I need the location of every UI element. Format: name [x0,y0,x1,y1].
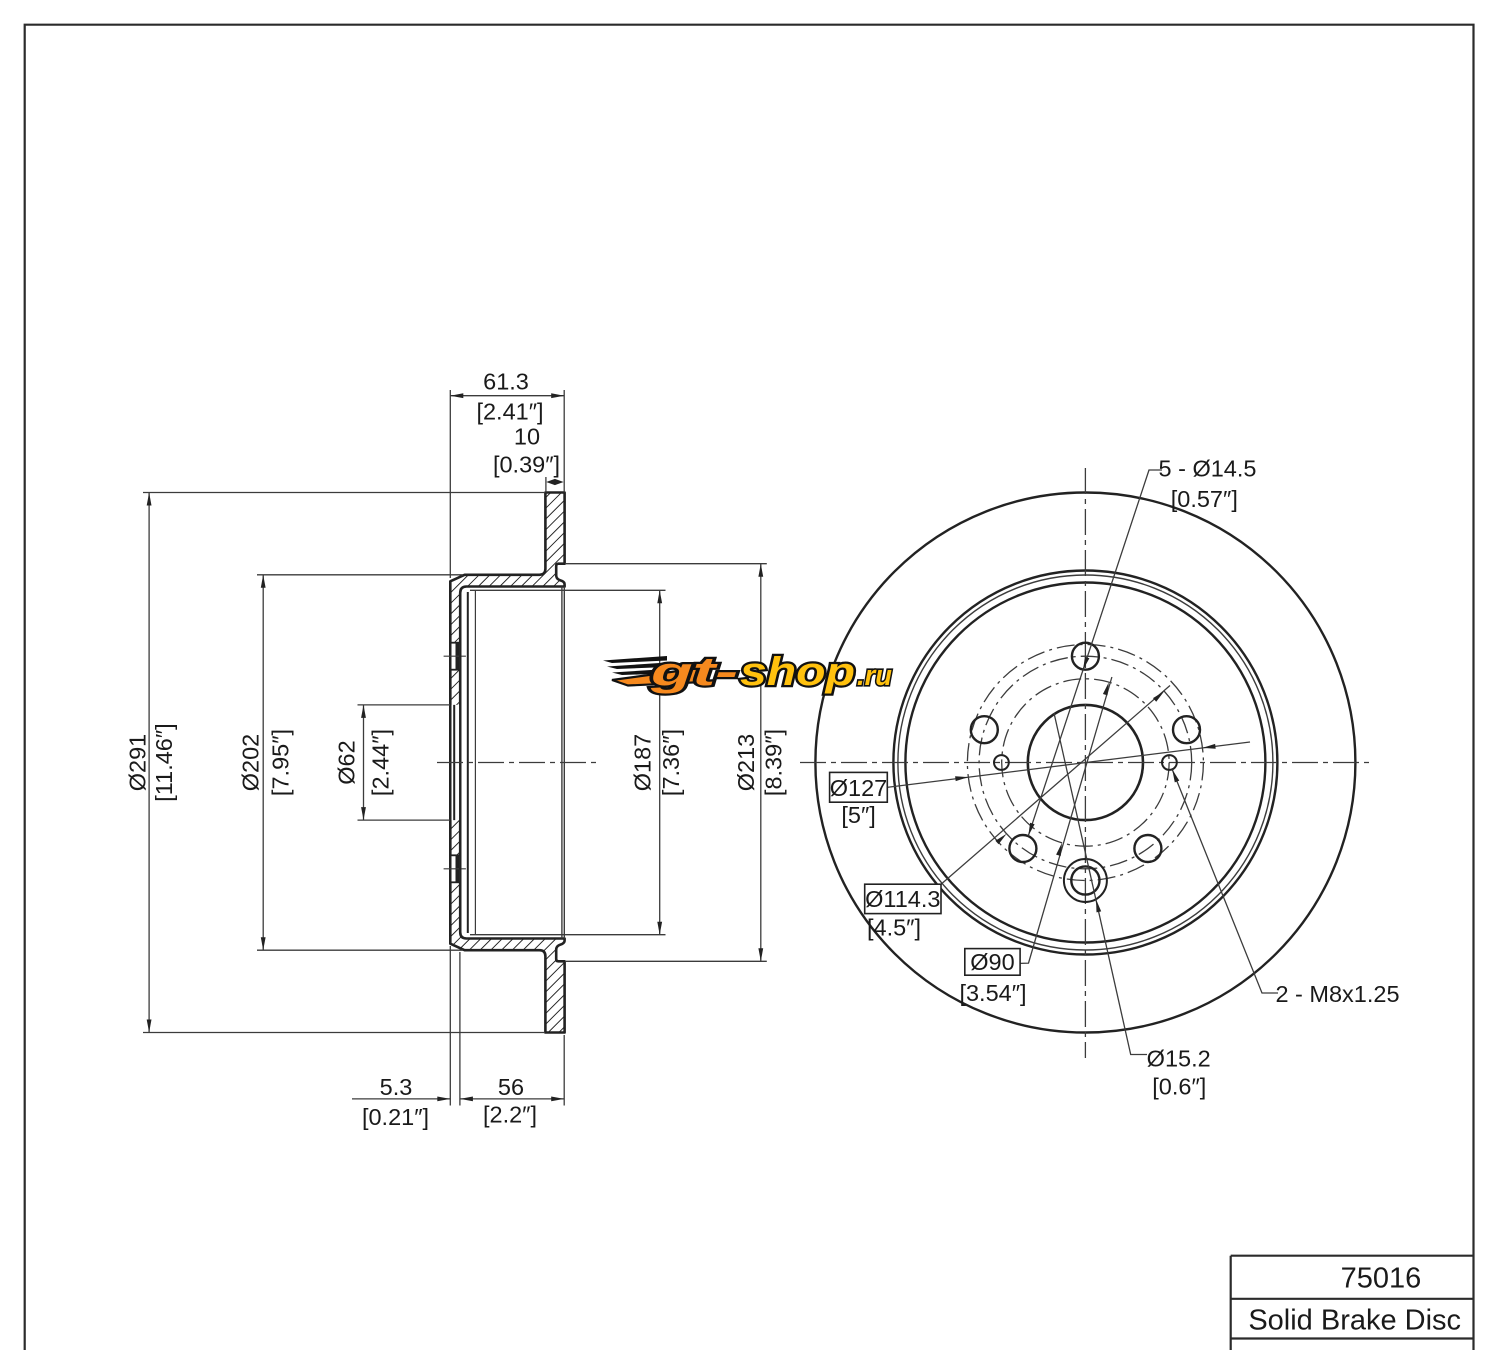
svg-text:56: 56 [498,1074,524,1100]
svg-text:[8.39″]: [8.39″] [760,729,786,796]
svg-text:[5″]: [5″] [841,802,875,828]
extension lines left view [143,492,545,494]
svg-text:Ø90: Ø90 [970,949,1014,975]
svg-text:Ø187: Ø187 [630,734,656,792]
svg-text:[2.2″]: [2.2″] [483,1102,537,1128]
dimension dia 202 [262,575,264,950]
boxed label dia114.3 [865,884,941,913]
bolt circle dia114.3 (dash-dot) [979,656,1192,869]
leader dia114.3 [939,686,1170,887]
dimension 56 bottom [460,1098,564,1100]
svg-text:2 - M8x1.25: 2 - M8x1.25 [1275,981,1399,1007]
dimension dia 291 [148,493,150,1033]
boxed label dia90 [965,949,1020,976]
svg-text:Ø62: Ø62 [334,740,360,784]
svg-text:[11.46″]: [11.46″] [151,723,177,801]
front view outer circle dia291 [815,493,1355,1033]
circle dia90 (dash-dot) [1002,679,1169,846]
dimension 10 (plate thickness) [546,479,563,485]
section centerline [437,762,597,764]
svg-text:Solid Brake Disc: Solid Brake Disc [1248,1305,1461,1337]
svg-text:Ø15.2: Ø15.2 [1147,1045,1211,1071]
svg-text:[2.44″]: [2.44″] [368,729,394,796]
plate inner edge lines [561,587,563,939]
center bore gap in section [452,705,460,820]
leader dia90 [1020,677,1112,963]
dimension dia 213 [760,564,762,962]
leader 2-M8x1.25 [1172,769,1278,993]
svg-text:[0.39″]: [0.39″] [493,452,560,478]
svg-text:gt-: gt- [649,650,738,694]
svg-text:[4.5″]: [4.5″] [867,914,921,940]
svg-text:61.3: 61.3 [483,369,529,395]
pilot boss line [467,592,469,933]
svg-text:[3.54″]: [3.54″] [959,980,1026,1006]
dimension dia 187 [659,590,661,934]
svg-text:[2.41″]: [2.41″] [476,399,543,425]
svg-text:10: 10 [514,424,540,450]
svg-text:75016: 75016 [1341,1263,1422,1295]
svg-text:[7.36″]: [7.36″] [658,729,684,796]
boxed label dia127 [830,772,888,802]
leader dia15.2 [1054,713,1147,1055]
leader dia127 [886,742,1250,788]
circle dia127 (dash-dot) [967,645,1203,881]
svg-text:Ø291: Ø291 [125,734,151,792]
svg-text:Ø114.3: Ø114.3 [865,886,940,912]
five bolt holes dia14.5 [1072,643,1099,670]
center bore circle dia62 [1028,705,1143,820]
pilot chamfer line [474,590,476,935]
drum surface line / ext of dia 187 bottom [470,934,666,936]
drum surface line / ext of dia 187 top [470,589,666,591]
flange bolt hole cut at y=656.2 [452,643,460,670]
svg-text:.ru: .ru [857,660,892,692]
leader 5-dia14.5 [1028,470,1162,836]
horizontal centerline [800,762,1374,764]
dimension 61.3 top [450,395,564,397]
svg-text:shop: shop [740,650,855,694]
friction band edge circles [893,571,1277,955]
svg-text:Ø127: Ø127 [830,775,888,801]
hub back face line [459,594,461,932]
svg-text:[7.95″]: [7.95″] [268,729,294,796]
pilot hole dia15.2 with chamfer ring [1071,866,1099,894]
svg-text:[0.6″]: [0.6″] [1152,1074,1206,1100]
two M8 service holes [994,755,1009,770]
title table [1231,1255,1474,1257]
watermark gt-shop.ru logo [603,650,892,694]
section view: brake disc hat profile (hatched) [450,493,564,1033]
svg-text:5 - Ø14.5: 5 - Ø14.5 [1159,456,1257,482]
dimension 5.3 bottom [352,1098,450,1100]
svg-text:Ø213: Ø213 [733,734,759,792]
svg-text:5.3: 5.3 [380,1074,413,1100]
vertical centerline [1084,468,1086,1058]
dimension dia 62 [363,705,365,820]
svg-text:[0.21″]: [0.21″] [362,1104,429,1130]
svg-text:Ø202: Ø202 [238,734,264,792]
svg-text:[0.57″]: [0.57″] [1171,486,1238,512]
flange bolt hole cut at y=868.8 [452,855,460,882]
